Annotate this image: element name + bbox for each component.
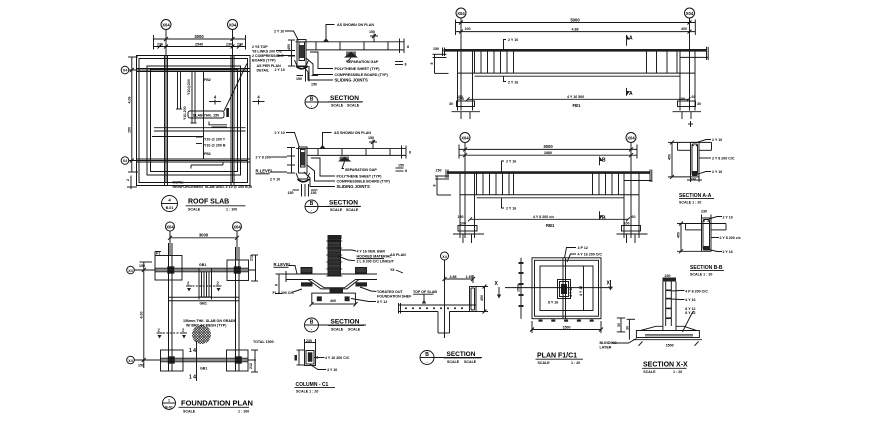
column C1 left bracket dim: [295, 350, 305, 365]
A-A left dimension: [668, 140, 691, 179]
FB1 bottom dimension: [457, 95, 696, 108]
svg-text:150: 150: [139, 264, 145, 268]
column of section 1: [295, 40, 309, 69]
svg-text:SCALE: SCALE: [346, 208, 359, 212]
column below slab edge section: [438, 312, 450, 334]
B-B left dimension: [677, 222, 702, 254]
grid bubble top-right foundation: [233, 222, 242, 231]
B-B flange: [686, 224, 727, 230]
svg-text:SCALE: SCALE: [464, 360, 477, 364]
grid bubble right RB1: [626, 133, 636, 143]
svg-text:FL 4 200 C/C: FL 4 200 C/C: [273, 291, 295, 295]
B-B title: [690, 265, 724, 276]
RB1 left column base: [453, 221, 484, 243]
RB1 top bar label: [502, 160, 517, 173]
blinding layer label X-X: [600, 339, 637, 350]
svg-text:FB2: FB2: [204, 78, 211, 82]
svg-text:GB1: GB1: [199, 263, 206, 267]
B-B web upstand: [702, 218, 712, 251]
svg-text:4: 4: [214, 95, 217, 100]
svg-text:1: 1: [168, 399, 170, 403]
left vertical dimension line of roof plan: [128, 57, 139, 172]
svg-text:100: 100: [679, 97, 685, 101]
svg-text:60: 60: [632, 215, 636, 219]
A-A leader stirrup: [699, 157, 735, 161]
grid bubble top-right of roof plan: [228, 20, 238, 30]
svg-text:450: 450: [287, 44, 291, 50]
svg-text:2: 2: [217, 281, 220, 286]
svg-text:1 4: 1 4: [189, 348, 196, 354]
svg-text:1 : 20: 1 : 20: [673, 370, 682, 374]
vertical grade beams foundation: [169, 243, 240, 371]
svg-text:4 Y 16 200 C/C: 4 Y 16 200 C/C: [325, 356, 350, 360]
svg-text:-: -: [311, 328, 313, 332]
svg-text:4.88: 4.88: [450, 275, 457, 279]
svg-text:2 Y 10: 2 Y 10: [275, 131, 285, 135]
small left texts edge section: [390, 253, 406, 273]
svg-text:GB1: GB1: [200, 367, 207, 371]
svg-text:BOARD (TYP): BOARD (TYP): [252, 59, 276, 63]
svg-text:3000: 3000: [199, 233, 209, 238]
AS SHOWN ON PLAN leader section 1: [323, 23, 374, 42]
svg-text:PLAN F1/C1: PLAN F1/C1: [537, 353, 577, 360]
B-B leader 2Y10: [709, 216, 733, 220]
left vertical dimension foundation: [138, 262, 152, 368]
edge section title: [444, 351, 482, 364]
svg-text:SCALE: SCALE: [447, 360, 460, 364]
section cut 2-2 upper pair: [186, 281, 222, 292]
svg-text:REINFORCEMENT SLAB UNO. # 10 @: REINFORCEMENT SLAB UNO. # 10 @ 200 B,W: [173, 185, 253, 189]
svg-text:X4: X4: [128, 269, 132, 273]
svg-text:100: 100: [458, 97, 464, 101]
svg-text:NOTE:: NOTE:: [173, 181, 184, 185]
column of section 2: [296, 147, 310, 182]
dowels below column section 2: [288, 184, 318, 197]
section 2 title text: [327, 200, 361, 213]
top dimension edge section: [443, 275, 476, 283]
left annotation block section 1: [252, 45, 295, 73]
svg-text:2 Y 16: 2 Y 16: [712, 170, 722, 174]
bottom interior bar with hook: [191, 162, 223, 169]
svg-text:3000: 3000: [194, 34, 204, 39]
FB1 beam slab top band: [443, 47, 709, 60]
svg-text:4 Y 16 VER. BAR: 4 Y 16 VER. BAR: [357, 250, 386, 254]
svg-text:SCALE: SCALE: [330, 208, 343, 212]
svg-text:SCALE: SCALE: [331, 327, 344, 331]
FB1 left column base: [449, 97, 480, 119]
svg-text:2 Y 10: 2 Y 10: [712, 138, 722, 142]
A-A bottom dim: [687, 177, 702, 182]
slab lines footing section: [286, 271, 377, 282]
2Y10 top bar label with leader section 2: [275, 131, 300, 148]
svg-text:COMPRESSIBLE BOARD (TYP): COMPRESSIBLE BOARD (TYP): [337, 180, 391, 184]
svg-text:150: 150: [296, 77, 302, 81]
svg-text:150mm THK. SLAB ON GRADE: 150mm THK. SLAB ON GRADE: [183, 319, 237, 323]
svg-text:8: 8: [405, 169, 407, 173]
vertical bars through center plan F1/C1: [563, 258, 584, 319]
svg-text:SECTION: SECTION: [447, 351, 476, 358]
left dims section 2: [256, 148, 296, 182]
RB1 right column: [624, 174, 639, 239]
long center vertical bar: [203, 72, 205, 159]
outer square plan F1/C1: [532, 258, 601, 319]
svg-text:X4: X4: [123, 69, 127, 73]
RB1 bottom bar label: [502, 198, 517, 210]
horizontal grid lines from left bubbles: [129, 69, 247, 71]
break blobs on slab right: [356, 268, 368, 287]
svg-text:8 Y 12: 8 Y 12: [377, 300, 387, 304]
hatched column footing section: [326, 235, 342, 276]
svg-text:2 Y 10: 2 Y 10: [723, 216, 733, 220]
svg-text:TOTAL 1500: TOTAL 1500: [253, 340, 274, 344]
svg-text:230: 230: [157, 43, 163, 47]
svg-text:1500: 1500: [517, 284, 521, 292]
FB1 right column base: [673, 97, 702, 119]
svg-text:2 Y 16: 2 Y 16: [506, 207, 516, 211]
svg-text:B: B: [602, 158, 606, 164]
edge section title bubble B: [420, 351, 482, 365]
section X-X title: [642, 362, 688, 374]
svg-text:X4: X4: [442, 255, 446, 259]
svg-text:SLAB THK. 150: SLAB THK. 150: [193, 113, 219, 117]
svg-text:B: B: [310, 320, 314, 326]
svg-text:4 P 12: 4 P 12: [578, 246, 588, 250]
svg-text:2 Y 16: 2 Y 16: [723, 250, 733, 254]
grid bubble left-upper foundation: [127, 266, 135, 274]
svg-text:SCALE: SCALE: [643, 370, 656, 374]
RB1 bottom dimension: [458, 215, 636, 228]
leaders to column texts: [338, 250, 395, 264]
svg-text:60: 60: [692, 95, 696, 99]
svg-text:100: 100: [460, 221, 466, 225]
svg-text:2: 2: [158, 328, 161, 333]
roof slab title text: [186, 199, 246, 212]
svg-text:FB1: FB1: [573, 103, 582, 108]
break blobs on slab left: [301, 268, 313, 287]
footing pedestal below: [310, 293, 358, 306]
section cut B lower: [600, 211, 607, 221]
roof plan outer slab rectangle (double line): [137, 56, 251, 186]
hatched circle slab on grade: [178, 324, 226, 346]
X cut mark left of plan: [495, 281, 502, 299]
footing F1 top-left: [155, 252, 182, 281]
right lower leaders footing section: [351, 287, 412, 304]
plan F1/C1 title: [536, 353, 584, 366]
right small 150 dim far right section 2: [396, 164, 408, 174]
svg-text:GB1: GB1: [200, 302, 207, 306]
svg-text:SEPARATION GAP: SEPARATION GAP: [345, 168, 377, 172]
column C1 title: [295, 382, 336, 393]
RB1 stirrups left cluster: [477, 174, 514, 195]
svg-text:150: 150: [128, 127, 132, 133]
svg-text:AS PLAN: AS PLAN: [390, 253, 406, 257]
foundation plan title bubble: [163, 397, 176, 410]
interior beam double lines vertical on grids: [164, 56, 166, 186]
svg-text:400: 400: [330, 299, 336, 303]
svg-text:SCALE: SCALE: [347, 104, 360, 108]
svg-text:SCALE: SCALE: [188, 208, 201, 212]
svg-text:5000: 5000: [570, 18, 580, 23]
svg-text:TOP OF SLAB: TOP OF SLAB: [413, 290, 437, 294]
svg-text:ROOF SLAB: ROOF SLAB: [188, 199, 229, 206]
svg-text:2 Y 10: 2 Y 10: [270, 178, 280, 182]
section 1 title bubble B: [305, 96, 362, 109]
footing F1 bottom-right: [227, 350, 249, 371]
TOP OF SLAB label: [413, 290, 437, 304]
svg-text:B-01: B-01: [165, 406, 173, 410]
svg-text:X04: X04: [686, 11, 694, 16]
grid bubble left-upper of roof plan: [121, 66, 129, 74]
svg-text:F1: F1: [156, 252, 160, 256]
B-B leader 2Y16: [709, 250, 733, 255]
section 1 title text: [328, 95, 363, 108]
svg-text:1 : 100: 1 : 100: [226, 208, 237, 212]
svg-text:150: 150: [311, 191, 317, 195]
FB1 bottom bar label: [504, 77, 519, 85]
top dimension line 2: [154, 43, 246, 49]
right side rotated dims foundation: [249, 255, 274, 372]
svg-text:SEPARATION GAP: SEPARATION GAP: [347, 60, 379, 64]
svg-text:4.06: 4.06: [128, 97, 132, 104]
svg-text:2 Y8 TOP: 2 Y8 TOP: [252, 45, 268, 49]
svg-text:SECTION: SECTION: [330, 95, 359, 102]
svg-text:2: 2: [126, 179, 130, 181]
svg-text:8: 8: [405, 63, 407, 67]
svg-text:2 Y 16: 2 Y 16: [508, 81, 518, 85]
right dimension edge section: [476, 285, 488, 314]
slab thickness label box with leader: [188, 64, 247, 119]
svg-text:2 Y 10: 2 Y 10: [508, 38, 518, 42]
svg-text:SECTION B-B: SECTION B-B: [690, 265, 723, 271]
svg-text:450: 450: [668, 154, 672, 160]
svg-text:4 Y 16 500: 4 Y 16 500: [567, 95, 584, 99]
svg-text:SLIDING JOINTS: SLIDING JOINTS: [335, 78, 368, 83]
svg-text:2 Y 10: 2 Y 10: [275, 68, 285, 72]
FB1 stirrups right cluster: [647, 51, 678, 73]
svg-text:150: 150: [398, 164, 404, 168]
svg-text:B-01: B-01: [166, 206, 174, 210]
footing trapezoid X-X: [641, 326, 697, 330]
svg-text:R.LEVEL: R.LEVEL: [256, 169, 274, 174]
svg-text:Y10-200: Y10-200: [183, 106, 187, 120]
middle horizontal beam pair: [152, 128, 246, 137]
FB1 right column: [680, 51, 695, 110]
right small 150 dim far right section 1: [395, 62, 407, 67]
svg-text:2: 2: [187, 281, 190, 286]
svg-text:X04: X04: [166, 225, 174, 230]
inner square plan F1/C1: [540, 266, 593, 311]
svg-text:X04: X04: [461, 136, 469, 141]
AS SHOWN ON PLAN leader section 2: [320, 131, 378, 149]
svg-text:Y10 @ 200 B: Y10 @ 200 B: [204, 144, 226, 148]
leaders right X-X: [671, 289, 708, 332]
svg-text:150: 150: [138, 364, 144, 368]
section cut A lower: [627, 88, 634, 97]
RB1 beam bottom lines: [460, 181, 652, 198]
svg-text:450: 450: [677, 232, 681, 238]
svg-text:DETAIL: DETAIL: [257, 69, 271, 73]
footing F1 bottom-left: [161, 350, 184, 371]
svg-text:2 COMPRESSIBLE: 2 COMPRESSIBLE: [252, 54, 284, 58]
svg-text:212: 212: [249, 363, 253, 369]
column C1 leader 4Y16: [314, 356, 350, 360]
svg-text:30: 30: [617, 323, 621, 327]
svg-text:150: 150: [436, 169, 442, 173]
RB1 stirrups right cluster: [593, 174, 619, 195]
svg-text:X04: X04: [162, 23, 170, 28]
slab rebar bar marks (vertical): [176, 72, 197, 123]
bubble stems FB1: [460, 18, 462, 51]
svg-text:AS SHOWN ON PLAN: AS SHOWN ON PLAN: [334, 131, 371, 135]
svg-text:SCALE 1 : 20: SCALE 1 : 20: [679, 201, 701, 205]
A-A web with stirrup: [691, 142, 700, 177]
svg-text:150: 150: [369, 30, 375, 34]
horizontal grade beams foundation: [155, 268, 249, 361]
svg-text:LAYER: LAYER: [600, 346, 612, 350]
svg-text:FOUNDATION SHEF: FOUNDATION SHEF: [377, 295, 412, 299]
svg-text:2 Y 8 200: 2 Y 8 200: [256, 156, 271, 160]
svg-text:2 Y 16: 2 Y 16: [506, 160, 516, 164]
svg-text:SECTION: SECTION: [329, 200, 358, 207]
svg-text:230: 230: [665, 274, 671, 278]
svg-text:-: -: [311, 209, 313, 213]
svg-text:8 Y 16: 8 Y 16: [548, 301, 558, 305]
svg-text:30: 30: [449, 102, 453, 106]
svg-text:4 Y 16: 4 Y 16: [685, 298, 695, 302]
svg-text:HOOKED MATERIAL: HOOKED MATERIAL: [357, 255, 393, 259]
svg-text:150: 150: [311, 83, 317, 87]
base slab X-X: [633, 331, 702, 348]
svg-text:2 Y 10: 2 Y 10: [274, 30, 284, 34]
column C1 outer rect: [305, 343, 316, 366]
hook bar upper: [209, 122, 227, 128]
B-B leader stirrup: [711, 236, 741, 240]
150 slab dim section 1: [369, 30, 378, 42]
FB1 beam bottom lines: [458, 57, 709, 76]
svg-text:30: 30: [697, 102, 701, 106]
svg-text:1500: 1500: [563, 325, 571, 329]
svg-text:SECTION X-X: SECTION X-X: [643, 362, 688, 369]
svg-text:4 Y 16 200 C/C: 4 Y 16 200 C/C: [578, 253, 603, 257]
svg-text:X04: X04: [233, 225, 241, 230]
svg-text:8: 8: [430, 63, 434, 65]
svg-text:4 Y 10: 4 Y 10: [327, 368, 337, 372]
RB1 top dimension lines: [459, 144, 637, 158]
svg-text:150: 150: [368, 136, 374, 140]
column C1 top dim 230: [305, 339, 316, 343]
section cut B upper: [600, 157, 607, 166]
svg-text:212: 212: [250, 255, 254, 261]
slab of section 2: [296, 146, 411, 159]
svg-text:AS SHOWN ON PLAN: AS SHOWN ON PLAN: [337, 23, 374, 27]
grid bubble left-lower foundation: [127, 356, 135, 364]
svg-text:8: 8: [407, 45, 409, 49]
svg-text:A: A: [629, 91, 633, 97]
svg-text:X: X: [607, 281, 611, 287]
FB1 top dimension lines: [456, 18, 696, 36]
top leader texts plan F1/C1: [565, 246, 603, 262]
svg-text:Y8: Y8: [390, 268, 394, 272]
dowel bars below column section 1: [296, 66, 318, 87]
left dims X-X: [617, 318, 635, 340]
svg-text:SCALE 1 : 20: SCALE 1 : 20: [690, 272, 712, 276]
svg-text:100: 100: [465, 27, 471, 31]
grid bubble top-left foundation: [166, 222, 175, 231]
roof slab title bubble: [162, 196, 178, 212]
svg-text:SCALE: SCALE: [183, 409, 196, 413]
slab on grade note: [183, 319, 237, 328]
middle hatch strip (wall above): [199, 268, 212, 299]
X-X cut line through plan: [505, 280, 613, 291]
svg-text:8: 8: [275, 284, 279, 286]
grid bubble left RB1: [460, 133, 470, 143]
svg-text:4.88: 4.88: [572, 28, 579, 32]
footing F1 top-right: [227, 260, 249, 281]
RB1 left end dim: [432, 169, 451, 196]
section cut 4 (right) in roof plan: [253, 95, 265, 105]
svg-text:1.35: 1.35: [466, 275, 473, 279]
svg-text:RB1: RB1: [546, 223, 555, 228]
svg-text:4 Y 8 200 c/c: 4 Y 8 200 c/c: [533, 215, 554, 219]
2Y10 top bar label with leader: [274, 30, 299, 41]
svg-text:R.LEVEL: R.LEVEL: [274, 262, 292, 267]
section cut 4 (left) in roof plan: [209, 95, 221, 105]
svg-text:150: 150: [288, 191, 294, 195]
haunch trapezoid: [308, 280, 359, 289]
grid bubble edge section: [441, 252, 449, 260]
svg-text:B: B: [602, 215, 606, 221]
svg-text:1 : 100: 1 : 100: [238, 409, 249, 413]
svg-text:2: 2: [182, 328, 185, 333]
svg-text:X04: X04: [457, 11, 465, 16]
A-A title: [679, 193, 714, 205]
B-B top dim 230: [701, 210, 711, 219]
svg-text:TORATED OUT: TORATED OUT: [377, 290, 403, 294]
svg-text:SECTION A-A: SECTION A-A: [679, 193, 712, 199]
center column plan F1/C1: [558, 280, 571, 299]
grid bubble top-left of roof plan: [161, 20, 171, 30]
svg-text:Y10@200: Y10@200: [187, 79, 191, 95]
svg-text:1 4: 1 4: [189, 375, 196, 381]
svg-text:8: 8: [432, 185, 436, 187]
grid bubble left FB1: [456, 8, 466, 18]
grid bubble left-lower of roof plan: [121, 157, 129, 165]
leader texts right section 1: [303, 52, 389, 83]
interior beam double lines horizontal on grids: [137, 68, 251, 70]
R.LEVEL label: [274, 262, 298, 274]
svg-text:4 Y 12: 4 Y 12: [569, 287, 573, 297]
column X-X with 230 dim: [663, 274, 677, 331]
svg-text:30: 30: [625, 326, 629, 330]
svg-text:POLYTHENE SHEET (TYP): POLYTHENE SHEET (TYP): [335, 67, 381, 71]
separation gap hatch blob section 1: [344, 52, 358, 58]
svg-text:2540: 2540: [195, 43, 203, 47]
A-A flange: [678, 142, 712, 150]
svg-text:X4: X4: [123, 159, 127, 163]
svg-text:SLIDING JOINTS: SLIDING JOINTS: [337, 184, 370, 189]
A-A top tick: [688, 121, 693, 127]
section cut 2-2 lower pair: [157, 328, 188, 339]
roof plan inner beam rectangle (double line): [147, 66, 241, 175]
svg-text:230: 230: [701, 210, 707, 214]
stem from bubble: [444, 260, 446, 338]
svg-text:1500: 1500: [666, 343, 674, 347]
footing section title bubble B: [305, 318, 367, 332]
svg-text:COLUMN - C1: COLUMN - C1: [296, 382, 329, 388]
bottom left small dim of plan: [126, 176, 137, 190]
svg-text:2 Y 8 200 c/c: 2 Y 8 200 c/c: [720, 236, 741, 240]
foundation plan title: [179, 399, 253, 414]
